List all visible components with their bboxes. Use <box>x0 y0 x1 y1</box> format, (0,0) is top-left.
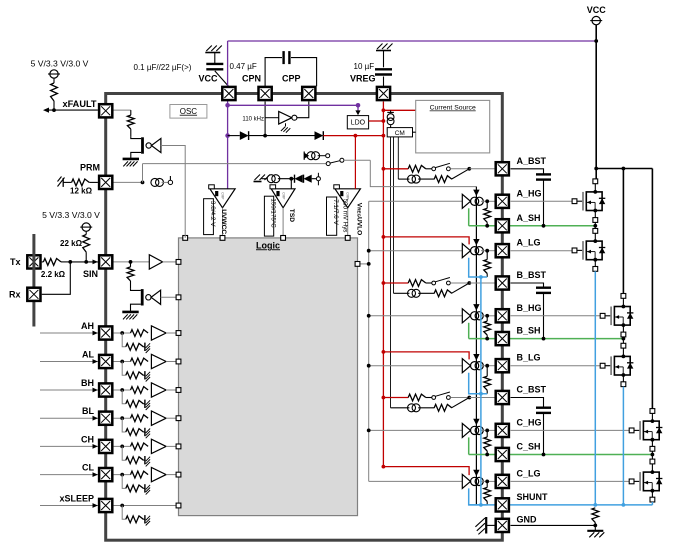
current source TSD <box>267 175 280 183</box>
wire D1 to CPN node <box>249 135 266 137</box>
node A_HG out <box>485 199 489 203</box>
node purple VCC-diode <box>225 133 230 138</box>
svg-text:CMP: CMP <box>282 192 286 199</box>
wire VCC to C drain <box>651 169 653 409</box>
node shunt gnd <box>593 524 597 528</box>
label CL <box>82 463 94 473</box>
resistor xSLEEP pulldown <box>122 506 144 523</box>
node PRM <box>141 181 145 185</box>
label CPP pin <box>282 74 301 84</box>
svg-text:12 kΩ: 12 kΩ <box>70 186 93 195</box>
wire C LS drain <box>650 455 655 473</box>
label UVWCC threshold box <box>204 199 217 235</box>
wire A_HG gate <box>511 200 573 202</box>
label C_LG <box>517 468 541 478</box>
label 22k <box>60 239 83 248</box>
node purple VCC-LDO <box>225 103 230 108</box>
wire B_HG driver out <box>481 315 495 317</box>
transistor SIN pulldown <box>131 288 152 312</box>
resistor AH pulldown <box>122 333 144 350</box>
wire B boot down <box>543 293 545 339</box>
diode D2 charge pump <box>315 131 324 140</box>
pin AL <box>99 355 112 368</box>
svg-text:C_HG: C_HG <box>517 417 542 427</box>
node red B_BST <box>382 281 386 285</box>
svg-text:110 kHz: 110 kHz <box>242 117 264 123</box>
resistor shunt <box>592 508 599 526</box>
node xFAULT <box>52 108 56 112</box>
label CH <box>81 434 94 444</box>
label UVWCC name <box>220 209 227 234</box>
node B_HG out <box>485 314 489 318</box>
label xFAULT <box>62 99 96 109</box>
svg-text:2.2 kΩ: 2.2 kΩ <box>41 270 66 279</box>
pin B_SH <box>496 332 509 345</box>
pin SIN <box>99 255 112 268</box>
label VCC cap value <box>134 63 192 72</box>
label C_SH <box>517 442 541 452</box>
wire xFAULT <box>43 108 98 113</box>
wire C LS source <box>650 491 655 502</box>
svg-text:AL: AL <box>82 350 94 360</box>
capacitor A bootstrap <box>536 174 551 179</box>
pin AH <box>99 326 112 339</box>
ground TSD current source <box>254 175 271 182</box>
resistor AL series <box>131 358 149 365</box>
wire pump cap to CPP <box>291 58 317 87</box>
wire CM to A_BST trickle <box>398 178 409 180</box>
arrow chain C_HG <box>473 419 479 426</box>
wire AH input <box>40 331 98 336</box>
resistor A_BST charge <box>408 165 426 172</box>
terminal VCC supply <box>590 16 602 24</box>
wire A boot down <box>543 180 545 226</box>
node SIN <box>129 260 133 264</box>
wire C_LG gate <box>511 480 630 482</box>
wire blue B source <box>622 387 624 505</box>
wire A_HG input <box>369 200 463 202</box>
wire B_BST res to switch <box>426 282 432 284</box>
ground VREG cap <box>376 44 393 51</box>
label BL <box>82 406 94 416</box>
svg-text:A_BST: A_BST <box>517 156 547 166</box>
pin B_LG <box>496 359 509 372</box>
node C_HG out <box>485 429 489 433</box>
node red C_BST <box>382 396 386 400</box>
svg-text:OSC: OSC <box>180 107 198 116</box>
svg-text:A_HG: A_HG <box>517 188 542 198</box>
wire green B_SH <box>469 338 624 340</box>
wire VregUVLO output <box>347 208 349 238</box>
buffer AH <box>151 326 166 340</box>
switch C_BST <box>432 392 450 399</box>
block CM <box>387 128 412 137</box>
op-amp driver A_HG <box>462 194 483 208</box>
diode TSD D1 <box>295 175 303 183</box>
resistor PRM 12k <box>63 179 98 186</box>
wire C_HG input <box>369 429 463 431</box>
resistor B_BST trickle <box>434 290 452 297</box>
wire CPN down <box>264 102 266 136</box>
label AH <box>81 321 94 331</box>
wire switch to chain <box>344 159 370 161</box>
wire SIN buffer out <box>163 261 179 263</box>
terminal logic top tsd <box>281 236 286 241</box>
ground BL pulldown <box>145 428 150 438</box>
node Tx junction <box>68 260 72 264</box>
wire A LS drain <box>593 226 598 241</box>
wire B_LG input <box>369 365 463 367</box>
wire red B_LG supply <box>383 352 469 360</box>
svg-text:A_SH: A_SH <box>517 213 541 223</box>
wire purple VCC vertical <box>227 41 229 189</box>
wire xFAULT gate drive <box>161 146 185 238</box>
inverter xFAULT <box>151 138 161 152</box>
wire CL input <box>40 472 98 477</box>
wire PRM inside <box>114 181 143 183</box>
wire CM to current source box <box>413 131 416 133</box>
wire red VREG to C_BST resistor <box>383 397 408 399</box>
pin C_LG <box>496 475 509 488</box>
wire B boot <box>511 283 544 288</box>
transistor B low-side <box>600 355 633 377</box>
label SIN <box>83 269 98 279</box>
wire blue B_LG return <box>469 373 488 394</box>
svg-text:VREG: VREG <box>350 74 376 84</box>
resistor BL series <box>131 415 149 422</box>
wire CM to B_BST trickle <box>394 292 410 294</box>
switch B_BST <box>432 278 450 285</box>
node BH <box>120 388 124 392</box>
wire red VREG to A_BST resistor <box>383 168 408 170</box>
wire CH to logic <box>166 445 178 447</box>
wire A_HG driver out <box>481 200 495 202</box>
svg-text:10 µF: 10 µF <box>354 62 375 71</box>
svg-text:SHUNT: SHUNT <box>517 492 549 502</box>
buffer BL <box>151 411 166 425</box>
wire red to current source box <box>383 109 415 111</box>
terminal logic AH <box>176 331 181 336</box>
wire A LS source <box>593 260 598 272</box>
wire chain drop <box>370 160 476 186</box>
resistor SIN series <box>127 262 134 289</box>
svg-text:xFAULT: xFAULT <box>62 99 96 109</box>
label B_SH <box>517 326 541 336</box>
svg-text:TSD: TSD <box>288 209 295 222</box>
svg-text:CL: CL <box>82 463 94 473</box>
node A_SH gate res <box>485 224 489 228</box>
wire CL to logic <box>166 474 178 476</box>
wire BL inside <box>114 417 131 419</box>
node red VREG join <box>382 134 386 138</box>
wire blue C source <box>651 502 653 505</box>
wire C_BST to pin <box>469 397 494 399</box>
label CPN cap value <box>230 62 257 71</box>
wire to SIN pin <box>70 260 98 265</box>
wire logic driver stub <box>358 263 369 265</box>
arrow chain A_LG <box>473 239 479 246</box>
svg-text:Tx: Tx <box>10 257 21 267</box>
wire SIN inside <box>114 261 150 263</box>
wire C_HG gate <box>511 429 630 431</box>
node A_LG out <box>485 249 489 253</box>
node red VregUVLO tap <box>354 134 358 138</box>
node red A_LG <box>382 235 386 239</box>
block LDO <box>347 116 368 129</box>
wire B_BST to pin <box>469 282 494 284</box>
node C_SH fet <box>651 453 655 457</box>
node A_SH fet <box>593 224 597 228</box>
wire A_BST to pin <box>469 168 494 170</box>
diode TSD D2 <box>304 175 312 183</box>
svg-text:Rx: Rx <box>9 290 21 300</box>
wire VREG cap <box>383 51 385 87</box>
node bus stub <box>367 262 371 266</box>
svg-text:A_LG: A_LG <box>517 238 541 248</box>
pin B_BST <box>496 276 509 289</box>
terminal xFAULT pullup <box>48 70 60 78</box>
pin Rx <box>27 288 40 301</box>
wire A_LG gate <box>511 250 573 252</box>
wire B_BST trickle diag <box>452 283 470 293</box>
op-amp driver A_LG <box>462 244 483 258</box>
ground BH pulldown <box>145 400 150 410</box>
arrow chain B_HG <box>473 304 479 311</box>
svg-text:CMP: CMP <box>220 192 224 199</box>
node blue C_LG <box>479 503 483 507</box>
pin xSLEEP <box>99 499 112 512</box>
wire PRM up <box>142 164 144 183</box>
resistor A_LG gate <box>484 251 491 277</box>
svg-text:SIN: SIN <box>83 269 98 279</box>
VCC supply cap wire <box>215 53 229 87</box>
pin BL <box>99 412 112 425</box>
wire xSLEEP input <box>40 503 98 508</box>
buffer AL <box>151 354 166 368</box>
wire C boot down <box>543 413 545 455</box>
wire AL inside <box>114 361 131 363</box>
wire blue shunt row <box>469 504 653 506</box>
buffer SIN <box>149 255 162 269</box>
label C_HG <box>517 417 542 427</box>
label Rx <box>9 290 21 300</box>
wire green B_HG source <box>468 323 470 339</box>
op-amp driver B_LG <box>462 359 483 373</box>
wire VCC to B drain <box>622 169 624 294</box>
adjust symbol PRM <box>58 177 65 187</box>
wire B_LG driver out <box>481 365 495 367</box>
wire VCC to A drain <box>595 169 597 179</box>
wire red VREG to B_BST resistor <box>383 282 408 284</box>
terminal logic AL <box>176 359 181 364</box>
wire blue shunt bus <box>480 277 482 505</box>
resistor xFAULT series <box>127 110 134 137</box>
svg-text:PRM: PRM <box>80 163 100 173</box>
pin PRM <box>99 176 112 189</box>
svg-text:500 mV Hys: 500 mV Hys <box>341 199 348 233</box>
svg-text:Current Source: Current Source <box>430 105 476 112</box>
capacitor VREG 10uF <box>375 69 392 74</box>
svg-text:LDO: LDO <box>351 120 366 127</box>
wire CH input <box>40 444 98 449</box>
svg-text:Logic: Logic <box>256 240 280 250</box>
wire A boot <box>511 169 544 175</box>
node B_SH cap <box>542 337 546 341</box>
wire Rx to junction <box>42 262 71 294</box>
node AH <box>120 331 124 335</box>
terminal logic CL <box>176 472 181 477</box>
node C_LG out <box>485 480 489 484</box>
node red LDO <box>382 119 386 123</box>
wire red A_LG supply <box>383 237 469 245</box>
wire A_BST switch to node <box>450 168 469 170</box>
resistor B_LG gate <box>484 366 491 394</box>
wire BL input <box>40 416 98 421</box>
svg-text:150/175°C: 150/175°C <box>270 198 277 228</box>
wire TSD cs <box>262 178 268 180</box>
label xSLEEP <box>59 494 94 504</box>
terminal logic BL <box>176 416 181 421</box>
terminal SIN pullup <box>80 223 92 231</box>
wire VCC rail vertical <box>595 25 597 169</box>
pin VCC <box>222 87 235 100</box>
label GND <box>517 514 538 524</box>
wire B_HG input <box>369 315 463 317</box>
resistor SIN pullup 22k <box>83 231 90 262</box>
node A_SH cap <box>542 224 546 228</box>
resistor xFAULT pullup <box>51 78 58 110</box>
svg-text:B_HG: B_HG <box>517 303 542 313</box>
wire C_HG driver out <box>481 429 495 431</box>
inverter 110kHz <box>279 111 297 124</box>
resistor BH series <box>131 387 149 394</box>
label BH <box>81 378 94 388</box>
terminal logic SIN drive <box>176 295 181 300</box>
label A_SH <box>517 213 541 223</box>
pin xFAULT <box>99 104 112 117</box>
label VCC pin <box>198 74 218 84</box>
capacitor CPP 0.47uF <box>284 51 290 64</box>
label C_BST <box>517 385 547 395</box>
capacitor B bootstrap <box>536 288 551 293</box>
switch contact trickle <box>326 154 330 158</box>
wire green C_SH <box>469 454 653 456</box>
wire blue A_LG return <box>469 258 488 277</box>
logic block <box>179 238 358 516</box>
wire C HS source <box>650 440 655 455</box>
svg-text:GND: GND <box>517 514 538 524</box>
wire BH input <box>40 388 98 393</box>
svg-text:B_LG: B_LG <box>517 353 541 363</box>
wire green A_HG source <box>468 208 470 226</box>
ground shunt <box>587 525 604 537</box>
op-amp driver C_HG <box>462 423 483 437</box>
wire GND to shunt <box>511 524 596 526</box>
svg-text:CPP: CPP <box>282 74 301 84</box>
pin C_HG <box>496 424 509 437</box>
resistor CH pulldown <box>122 446 144 463</box>
wire VCC rail horizontal <box>596 168 652 170</box>
label VregUVLO name <box>356 203 363 236</box>
pin C_SH <box>496 448 509 461</box>
svg-text:UVWCC: UVWCC <box>220 209 227 234</box>
label VREG pin <box>350 74 376 84</box>
current source trickle <box>304 152 325 160</box>
svg-text:5 V/3.3 V/3.0 V: 5 V/3.3 V/3.0 V <box>42 210 100 220</box>
wire CM output 3 <box>397 137 399 179</box>
wire B HS source <box>621 325 626 339</box>
node AL <box>120 360 124 364</box>
svg-text:C_BST: C_BST <box>517 385 547 395</box>
node blue A_LG <box>479 275 483 279</box>
node blue shunt A <box>593 503 597 507</box>
wire xFAULT inside <box>114 109 131 111</box>
capacitor C bootstrap <box>536 408 551 413</box>
wire B_LG gate <box>511 365 601 367</box>
label A_BST <box>517 156 547 166</box>
svg-text:AH: AH <box>81 321 94 331</box>
wire C_BST trickle link <box>418 407 434 409</box>
node CL <box>120 473 124 477</box>
wire PRM option row <box>143 163 327 165</box>
wire C_LG input <box>369 480 463 482</box>
svg-text:B_BST: B_BST <box>517 270 547 280</box>
wire B LS drain <box>621 339 626 357</box>
transistor xFAULT pulldown <box>131 137 152 159</box>
label VREG cap value <box>354 62 375 71</box>
node C_BST junction <box>467 396 471 400</box>
pin A_HG <box>496 195 509 208</box>
wire A HS source <box>593 211 598 226</box>
buffer BH <box>151 383 166 397</box>
node red A_BST <box>382 167 386 171</box>
wire B_BST switch to node <box>450 282 469 284</box>
wire CM to C_BST trickle <box>391 407 410 409</box>
terminal logic CH <box>176 444 181 449</box>
pin Tx <box>27 255 40 268</box>
ground VCC cap <box>205 46 222 53</box>
label VCC supply <box>587 5 607 15</box>
ground xSLEEP pulldown <box>145 515 150 525</box>
svg-text:BH: BH <box>81 378 94 388</box>
wire TSD cs to diodes <box>278 178 295 180</box>
buffer CL <box>151 467 166 481</box>
ground CL pulldown <box>145 484 150 494</box>
wire osc to CPP <box>297 102 309 118</box>
label A_LG <box>517 238 541 248</box>
pin CPN <box>259 87 272 100</box>
resistor A_BST trickle <box>434 176 452 183</box>
wire B LS source <box>621 375 626 387</box>
node CPN diode junction <box>263 134 267 138</box>
node B_LG out <box>485 364 489 368</box>
resistor CL pulldown <box>122 475 144 492</box>
node SIN pullup <box>84 260 88 264</box>
resistor Tx 2.2k <box>42 259 71 266</box>
transistor C low-side <box>629 470 662 492</box>
node red B_LG <box>382 350 386 354</box>
wire C boot <box>511 398 544 408</box>
pin B_HG <box>496 309 509 322</box>
ground SIN <box>122 312 138 320</box>
terminal logic top vreguvlo <box>345 236 350 241</box>
label CPN pin <box>242 74 261 84</box>
node B_BST junction <box>467 281 471 285</box>
svg-text:22 kΩ: 22 kΩ <box>60 239 83 248</box>
node blue shunt B <box>622 503 626 507</box>
block current source <box>416 100 490 152</box>
resistor C_LG gate <box>484 481 491 505</box>
